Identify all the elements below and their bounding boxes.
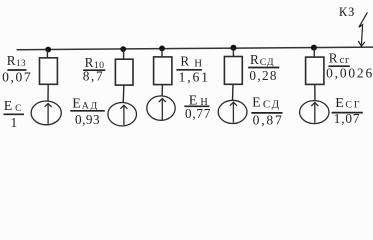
svg-text:0,07: 0,07 [2,69,32,84]
svg-text:Е: Е [72,96,81,111]
source ESG arrow [311,103,318,123]
label R13 fraction [2,53,32,84]
svg-text:Е: Е [252,96,261,111]
wire dot4 to RSD [232,48,234,57]
label RN fraction [176,54,209,85]
wire RSG to source ESG [314,84,316,100]
node junction dot 5 [311,45,317,51]
svg-text:СГ: СГ [345,99,361,110]
svg-text:0,28: 0,28 [249,68,277,83]
svg-text:АД: АД [82,100,99,111]
source EAD arrow [120,105,127,125]
svg-text:КЗ: КЗ [339,5,355,19]
svg-text:сг: сг [340,54,350,66]
label RSG fraction [326,50,373,80]
resistor R10 [115,59,133,85]
svg-text:R: R [7,53,16,68]
wire dot5 to RSG [313,48,315,58]
wire dot3 to RN [161,48,163,57]
source Ec arrow [45,103,52,123]
label ESG fraction [332,96,363,126]
source ESG circle [300,101,329,124]
source ESD arrow [230,102,237,123]
label R10 fraction [83,55,105,83]
source EAD circle [108,103,137,126]
svg-text:R: R [180,54,189,69]
svg-text:СД: СД [263,99,281,111]
wire dot2 to R10 [123,49,125,59]
svg-text:Е: Е [4,99,13,114]
svg-text:8,7: 8,7 [83,68,104,83]
node junction dot 4 [231,45,237,51]
label Ec fraction [4,99,25,130]
source Ec circle [31,101,61,125]
wire R10 to source EAD [122,85,125,103]
svg-text:Н: Н [194,57,202,69]
svg-text:0,77: 0,77 [185,106,211,121]
svg-text:С: С [15,104,21,114]
svg-text:0,0026: 0,0026 [326,65,373,80]
label EN fraction [184,93,211,120]
svg-text:13: 13 [16,58,26,68]
svg-text:1,61: 1,61 [179,69,210,84]
wire RN to source EN [161,85,163,96]
top bus wire [17,47,373,50]
node junction dot 2 [120,46,126,52]
wire RSD to source ESD [232,84,235,100]
resistor R13 [40,58,58,85]
wire dot1 to R13 [46,50,48,58]
node junction dot 3 [159,46,165,52]
label ESD fraction [251,96,283,128]
source ESD circle [218,100,247,123]
svg-text:Е: Е [335,96,344,111]
source EN circle [147,96,175,120]
label RSD fraction [248,52,279,83]
svg-text:СД: СД [260,57,275,68]
resistor RN [154,57,172,85]
short-circuit lightning arrow [358,12,367,46]
label EAD fraction [70,96,105,127]
source EN arrow [159,99,166,120]
svg-text:1,07: 1,07 [334,111,360,126]
node junction dot 1 [45,47,51,53]
svg-text:0,87: 0,87 [253,113,284,128]
wire R13 to source Ec [47,84,49,101]
resistor RSD [224,57,242,85]
svg-text:0,93: 0,93 [75,112,100,127]
svg-text:R: R [250,52,259,67]
resistor RSG [306,57,324,84]
svg-text:R: R [329,50,338,65]
svg-text:1: 1 [11,115,18,130]
